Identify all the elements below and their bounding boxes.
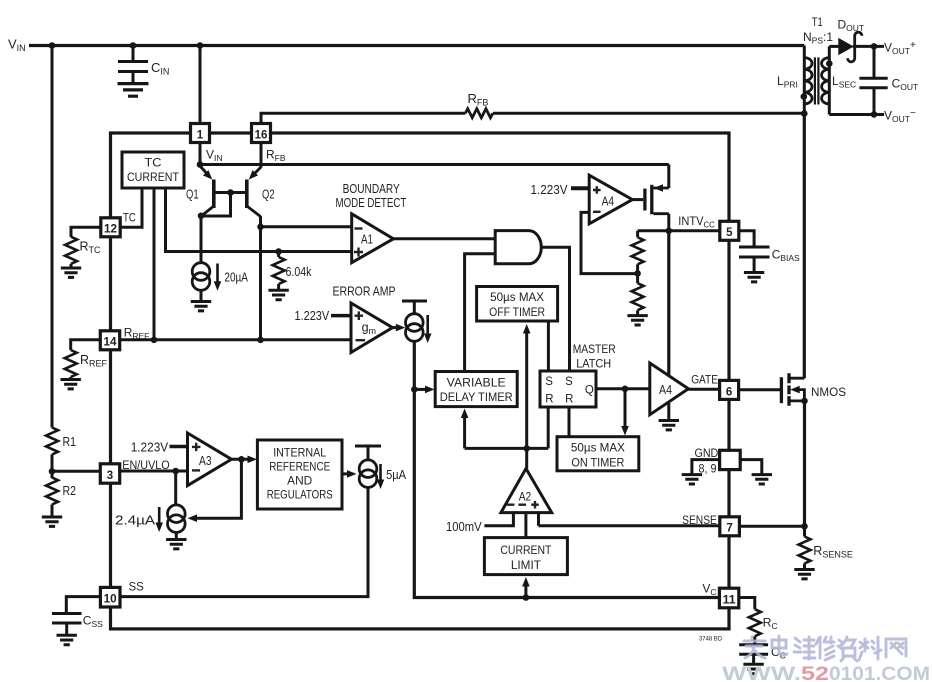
ground below RREF xyxy=(69,377,72,379)
wire TC block line2 to RREF line xyxy=(153,188,156,340)
svg-text:CSS: CSS xyxy=(83,614,103,630)
wire VOUT- xyxy=(829,113,884,116)
wire A1 output to AND xyxy=(393,237,495,240)
svg-text:INTVCC: INTVCC xyxy=(678,214,715,230)
svg-text:MODE DETECT: MODE DETECT xyxy=(336,195,407,210)
svg-text:LPRI: LPRI xyxy=(777,74,798,90)
junction dot Q1 collector xyxy=(198,213,205,220)
wire latch Q output xyxy=(596,387,650,390)
wire 100mV to A2 minus xyxy=(484,513,513,526)
wire Q1 collector down to 20uA xyxy=(200,216,203,263)
op-amp A4 gate driver xyxy=(650,363,689,415)
junction dot Q2 collector line xyxy=(257,337,264,344)
block VARIABLE DELAY TIMER xyxy=(435,372,517,407)
svg-text:COUT: COUT xyxy=(892,77,919,93)
svg-text:ON TIMER: ON TIMER xyxy=(571,457,624,469)
svg-text:LATCH: LATCH xyxy=(576,359,611,371)
svg-text:20µA: 20µA xyxy=(224,270,248,285)
svg-text:RSENSE: RSENSE xyxy=(813,544,853,560)
resistor RFB xyxy=(465,91,493,118)
svg-text:RFB: RFB xyxy=(266,148,286,164)
wire latch R1 down xyxy=(547,407,550,448)
svg-text:3: 3 xyxy=(107,470,113,482)
wire TC block line1 to pin12 xyxy=(120,188,142,227)
pin GND box xyxy=(720,450,741,469)
wire pin3 to A3 xyxy=(120,470,188,473)
wire emitter rail y164 xyxy=(200,163,669,166)
wire VIN top rail xyxy=(29,44,804,47)
wire A1 minus input xyxy=(261,225,352,228)
svg-text:11: 11 xyxy=(723,594,737,606)
wire pass FET drain up to y164 rail xyxy=(667,165,670,189)
capacitor COUT xyxy=(859,46,918,114)
svg-text:Q1: Q1 xyxy=(186,187,199,201)
svg-text:VC: VC xyxy=(702,582,716,598)
wire arrow into VDT xyxy=(414,388,426,391)
IC boundary outline xyxy=(111,133,730,629)
watermark chinese line xyxy=(744,636,906,661)
svg-text:R2: R2 xyxy=(63,483,77,498)
junction dot VIN/pin1 xyxy=(197,42,204,49)
resistor RREF xyxy=(65,340,108,377)
svg-text:A3: A3 xyxy=(199,454,212,468)
wire GND right ground xyxy=(740,460,762,474)
svg-text:1.223V: 1.223V xyxy=(531,182,568,197)
svg-text:A2: A2 xyxy=(519,490,532,504)
svg-text:TC: TC xyxy=(145,158,162,170)
capacitor CC xyxy=(739,636,786,663)
svg-text:RTC: RTC xyxy=(80,240,102,256)
svg-text:REFERENCE: REFERENCE xyxy=(269,462,330,474)
capacitor CBIAS xyxy=(739,231,800,272)
wire A2 plus to pin7 xyxy=(539,524,720,527)
ground below RTC xyxy=(70,264,73,267)
svg-text:DELAY TIMER: DELAY TIMER xyxy=(440,392,513,404)
op-amp A3 xyxy=(188,433,232,486)
resistor RC xyxy=(749,609,778,636)
wire R1 to node xyxy=(51,455,54,479)
svg-text:Q: Q xyxy=(585,385,594,397)
svg-text:50µs MAX: 50µs MAX xyxy=(571,443,625,455)
ground below R2 xyxy=(51,505,54,517)
pin 7 xyxy=(720,517,740,536)
transistor Q1 xyxy=(186,166,215,216)
svg-text:1.223V: 1.223V xyxy=(295,308,330,323)
ground below RSENSE xyxy=(803,564,806,569)
svg-text:VIN: VIN xyxy=(206,148,223,164)
current source error amp output xyxy=(402,301,432,343)
pin 5 xyxy=(720,221,739,240)
pin 11 xyxy=(719,588,738,608)
svg-text:14: 14 xyxy=(104,337,118,349)
svg-text:3748 BD: 3748 BD xyxy=(699,636,722,643)
wire pin7 to RSENSE node xyxy=(739,525,804,528)
wire latch R2 down to ON timer xyxy=(568,407,571,437)
svg-text:16: 16 xyxy=(255,130,268,142)
svg-text:100mV: 100mV xyxy=(446,519,482,534)
svg-text:INTERNAL: INTERNAL xyxy=(273,448,327,460)
wire pin1 to emitter node xyxy=(199,143,202,167)
current source 2.4uA xyxy=(115,505,185,533)
wire Q1 bases tie xyxy=(201,193,247,217)
junction dot R1 R2 xyxy=(49,468,56,475)
pin 10 xyxy=(100,587,120,607)
wire A2 output up xyxy=(525,448,528,468)
svg-text:SS: SS xyxy=(129,582,145,594)
wire current limit bottom from VC line with up arrow xyxy=(524,583,527,598)
svg-text:50µs MAX: 50µs MAX xyxy=(490,292,544,304)
svg-text:6: 6 xyxy=(726,386,732,398)
svg-text:WWW.: WWW. xyxy=(722,663,801,682)
junction dot INTVCC xyxy=(666,228,673,235)
op-amp A2 current comparator xyxy=(501,469,552,513)
wire 5uA down to SS line xyxy=(120,488,368,597)
wire OFF timer bottom input with up arrow xyxy=(525,331,528,448)
wire gm output arrow xyxy=(393,326,399,329)
junction dot A3 output xyxy=(238,456,245,463)
ground below driver xyxy=(659,421,679,430)
svg-text:6.04k: 6.04k xyxy=(286,264,312,279)
wire Q2 collector down xyxy=(259,216,262,340)
AND gate xyxy=(495,231,541,264)
wire EA output down to VC line xyxy=(414,341,719,597)
resistor R1 xyxy=(46,428,76,455)
wire AND output to latch S2 xyxy=(541,247,569,371)
wire driver to pin 6 xyxy=(688,388,719,391)
wire pin3 tap down to 2.4uA xyxy=(174,471,177,505)
junction dot NMOS source/body xyxy=(801,398,808,405)
svg-text:RFB: RFB xyxy=(468,91,489,108)
pin 3 xyxy=(100,464,119,483)
transistor NMOS xyxy=(781,373,846,406)
svg-text:CIN: CIN xyxy=(151,60,169,77)
pin 12 xyxy=(101,218,120,237)
ground below 6.04k xyxy=(277,284,280,289)
junction dot VC line xyxy=(523,594,530,601)
svg-text:R1: R1 xyxy=(63,434,77,449)
transistor Q2 xyxy=(246,167,275,217)
wire VDT output up to AND input2 xyxy=(465,254,496,372)
junction dot VDT branch xyxy=(411,386,418,393)
junction dot 6.04k top xyxy=(275,248,282,255)
svg-text:RC: RC xyxy=(763,616,778,632)
svg-text:A1: A1 xyxy=(361,232,373,246)
svg-text:VOUT+: VOUT+ xyxy=(884,40,916,56)
op-amp A4 regulator xyxy=(589,175,632,224)
wire box output to 5uA xyxy=(342,472,349,475)
wire VDT bottom input with up arrow xyxy=(463,416,466,448)
current source 5uA xyxy=(355,446,406,489)
capacitor CIN xyxy=(118,46,169,83)
svg-text:ERROR AMP: ERROR AMP xyxy=(333,283,396,298)
ground below CSS xyxy=(56,635,76,644)
wire left rail down to R1 xyxy=(51,46,54,428)
block INTERNAL REFERENCE AND REGULATORS xyxy=(257,440,342,509)
wire A3 output xyxy=(232,458,250,461)
wire INTVCC node line xyxy=(638,229,720,232)
transformer T1 secondary xyxy=(822,46,857,114)
svg-text:10: 10 xyxy=(104,594,117,606)
svg-text:VARIABLE: VARIABLE xyxy=(447,378,506,390)
diode DOUT xyxy=(838,18,865,62)
svg-text:12: 12 xyxy=(104,224,117,236)
resistor divider upper xyxy=(632,231,644,274)
pin 6 xyxy=(720,380,739,399)
svg-text:2.4µA: 2.4µA xyxy=(115,513,155,528)
wire NMOS drain up to transformer xyxy=(803,114,806,379)
block CURRENT LIMIT xyxy=(484,538,567,575)
wire driver ground xyxy=(667,402,670,420)
svg-text:R: R xyxy=(565,393,573,405)
block TC CURRENT xyxy=(122,152,184,188)
wire RREF line to gm minus xyxy=(120,338,351,341)
junction dot sense node xyxy=(801,523,808,530)
svg-text:gm: gm xyxy=(362,321,376,337)
svg-text:A4: A4 xyxy=(602,195,615,209)
svg-text:5µA: 5µA xyxy=(386,467,406,482)
svg-text:R: R xyxy=(545,393,553,405)
ground below 2.4uA xyxy=(175,533,178,539)
capacitor CSS xyxy=(52,597,103,635)
svg-text:T1: T1 xyxy=(812,15,823,29)
wire 1.223V stub to gm xyxy=(331,314,351,318)
svg-text:5: 5 xyxy=(726,227,733,239)
svg-text:RREF: RREF xyxy=(80,353,108,369)
wire A4 feedback xyxy=(581,212,638,273)
svg-text:A4: A4 xyxy=(659,383,672,397)
svg-text:OFF TIMER: OFF TIMER xyxy=(489,307,545,319)
wire pin16 to Q2 emitter xyxy=(260,143,263,168)
wire 1.223V stub to A3 xyxy=(170,445,188,449)
svg-text:LIMIT: LIMIT xyxy=(511,560,541,572)
svg-text:7: 7 xyxy=(726,523,732,535)
wire OFF timer output to latch S xyxy=(547,321,550,371)
op-amp gm error amp xyxy=(351,303,393,353)
block master latch xyxy=(540,371,596,407)
ground below 20uA xyxy=(200,290,203,300)
junction dot 2.4uA tap xyxy=(172,468,179,475)
transistor pass FET xyxy=(645,184,669,214)
junction dot VOUT- xyxy=(871,111,878,118)
resistor R2 xyxy=(46,478,76,505)
wire pin1 feed xyxy=(199,46,202,125)
wire pass FET source down to INTVCC xyxy=(667,214,670,231)
wire A3 output to 2.4uA control xyxy=(196,459,241,518)
wire INTVCC supply to driver xyxy=(667,231,670,376)
svg-text:DOUT: DOUT xyxy=(838,18,865,34)
svg-text:CURRENT: CURRENT xyxy=(127,172,179,184)
wire NMOS source down to sense xyxy=(803,401,806,526)
junction dot VIN/left rail xyxy=(49,42,56,49)
ground below CIN xyxy=(118,84,149,97)
svg-text:GATE: GATE xyxy=(691,374,718,386)
resistor 6.04k xyxy=(273,252,312,285)
pin 14 xyxy=(100,331,119,350)
block 50us MAX ON TIMER xyxy=(557,437,639,471)
wire A2 plus input from sense xyxy=(537,513,540,526)
watermark url line xyxy=(722,663,930,682)
junction dot A2 output xyxy=(523,445,530,452)
svg-text:GND: GND xyxy=(695,448,719,460)
ground below CC xyxy=(743,664,763,673)
wire TC block line3 to A1 plus xyxy=(166,188,352,252)
wire pin12 to RTC xyxy=(71,227,101,237)
resistor RTC xyxy=(65,237,101,264)
svg-text:52: 52 xyxy=(801,663,829,682)
op-amp A1 xyxy=(352,214,394,263)
wire GND left ground xyxy=(692,460,720,474)
current source 20uA xyxy=(192,263,248,291)
svg-text:0101.COM: 0101.COM xyxy=(829,663,930,682)
svg-text:REGULATORS: REGULATORS xyxy=(267,490,333,502)
svg-text:LSEC: LSEC xyxy=(832,74,856,90)
resistor RSENSE xyxy=(799,526,853,563)
svg-text:BOUNDARY: BOUNDARY xyxy=(343,181,400,196)
junction dot divider tap xyxy=(634,270,641,277)
block 50us MAX OFF TIMER xyxy=(477,287,558,322)
svg-text:Q2: Q2 xyxy=(262,187,275,201)
svg-text:NPS:1: NPS:1 xyxy=(803,30,833,46)
wire pin6 to NMOS gate xyxy=(739,388,781,391)
transformer T1 primary xyxy=(777,46,812,114)
junction dot bases xyxy=(227,189,234,196)
wire horizontal A2 output bus xyxy=(465,447,549,450)
svg-text:CURRENT: CURRENT xyxy=(500,545,551,557)
transformer T1 core xyxy=(815,57,819,104)
wire 1.223V stub to A4 xyxy=(571,186,589,190)
wire Q down into ON timer with arrow xyxy=(624,389,627,428)
wire A2 mid input from current limit xyxy=(524,513,527,538)
wire A4 output to pass FET gate xyxy=(632,198,643,201)
wire R1R2 node to pin3 xyxy=(52,470,100,473)
junction dot primary bottom xyxy=(801,110,808,117)
ground below CBIAS xyxy=(744,273,764,282)
svg-text:S: S xyxy=(545,376,553,388)
junction dot Q2 collector / A1 input xyxy=(257,224,264,231)
resistor divider lower xyxy=(632,273,644,314)
svg-text:1: 1 xyxy=(197,130,204,142)
svg-text:TC: TC xyxy=(123,213,136,225)
pin 16 xyxy=(252,124,271,143)
junction dot emitter node xyxy=(197,161,204,168)
wire VOUT+ xyxy=(853,45,884,48)
svg-text:VIN: VIN xyxy=(8,37,26,54)
svg-text:1.223V: 1.223V xyxy=(131,440,169,455)
svg-text:NMOS: NMOS xyxy=(811,387,846,399)
junction dot VIN/CIN xyxy=(130,42,137,49)
svg-text:MASTER: MASTER xyxy=(573,344,616,356)
junction dot TC line2 xyxy=(151,337,158,344)
wire RFB line xyxy=(261,113,804,124)
ground below divider xyxy=(627,316,647,325)
svg-text:S: S xyxy=(565,376,573,388)
svg-text:CBIAS: CBIAS xyxy=(772,248,800,264)
junction dot Q branch xyxy=(622,386,629,393)
svg-text:AND: AND xyxy=(287,476,312,488)
wire pin11 to RC xyxy=(739,598,755,610)
wire secondary top to diode xyxy=(829,45,839,48)
pin 1 xyxy=(191,124,210,143)
junction dot VOUT+ xyxy=(871,43,878,50)
svg-text:VOUT−: VOUT− xyxy=(884,108,916,124)
